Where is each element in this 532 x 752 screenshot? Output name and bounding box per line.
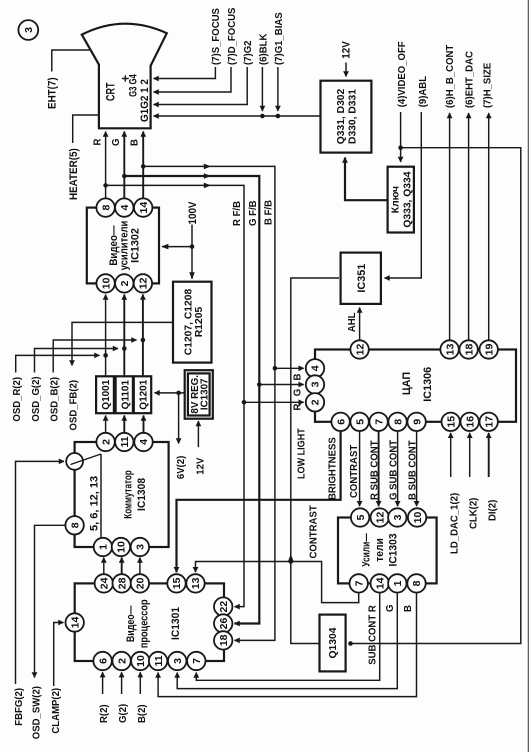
svg-text:2: 2	[119, 280, 131, 286]
svg-text:R(2): R(2)	[99, 704, 110, 723]
wire H_SIZE from pin 19	[488, 113, 490, 340]
block Q331 D302 D330 D331	[321, 81, 372, 153]
svg-text:B F/B: B F/B	[263, 200, 274, 225]
wire R(2) input	[102, 672, 104, 694]
svg-text:(9)ABL: (9)ABL	[418, 76, 429, 107]
svg-text:Q1001: Q1001	[101, 379, 112, 409]
wire 6V branch	[178, 393, 180, 444]
wire R SUB CONT	[378, 431, 380, 506]
pin 2 IC1302	[115, 274, 133, 292]
svg-text:DI(2): DI(2)	[487, 500, 498, 521]
svg-text:28: 28	[116, 577, 128, 589]
svg-text:Видео—: Видео—	[125, 605, 137, 642]
svg-text:B: B	[129, 139, 140, 146]
block switch Klyuch Q333 Q334	[388, 167, 414, 233]
pin 19 IC1306	[480, 340, 498, 358]
svg-text:Q1101: Q1101	[120, 380, 131, 410]
pin 24 IC1301	[95, 574, 113, 592]
svg-text:3: 3	[310, 381, 322, 387]
pin 4 IC1306	[306, 359, 324, 377]
svg-text:5: 5	[354, 419, 366, 425]
pin 17 IC1306	[480, 413, 498, 431]
pin 7 IC1303	[350, 574, 368, 592]
svg-text:19: 19	[483, 344, 495, 356]
svg-text:14: 14	[374, 577, 386, 589]
wire 100V to IC1302 and C1207	[162, 225, 192, 279]
pin 10 IC1308	[112, 538, 130, 556]
svg-text:17: 17	[483, 416, 495, 428]
svg-text:Q1201: Q1201	[139, 379, 150, 409]
pin group 5 6 12 13 IC1308	[66, 453, 101, 537]
pin 3 IC1301	[168, 652, 186, 670]
svg-text:G: G	[385, 604, 396, 612]
svg-text:тели: тели	[374, 538, 386, 562]
svg-text:Q331, D302: Q331, D302	[336, 88, 347, 144]
svg-text:G(2): G(2)	[118, 704, 129, 723]
svg-text:9: 9	[411, 419, 423, 425]
svg-text:B SUB CONT: B SUB CONT	[407, 440, 418, 500]
svg-text:5: 5	[355, 514, 367, 520]
svg-text:SUB CONT R: SUB CONT R	[367, 605, 378, 665]
wire Klyuch to Q331	[345, 158, 388, 201]
svg-text:AHL: AHL	[347, 312, 358, 332]
svg-text:11: 11	[153, 655, 165, 666]
wire H_B_CONT from pin 13	[449, 113, 451, 340]
transistor Q1001	[96, 376, 114, 413]
svg-text:(6)H_B_CONT: (6)H_B_CONT	[445, 45, 456, 108]
wire commutator pin4 to Q1201	[143, 416, 145, 433]
wire BRIGHTNESS	[177, 431, 341, 572]
wire G SUB CONT	[397, 431, 399, 506]
svg-text:LOW LIGHT: LOW LIGHT	[296, 428, 308, 479]
svg-text:B: B	[403, 605, 414, 612]
wire SUB CONT B	[158, 593, 416, 697]
svg-text:22: 22	[218, 601, 230, 613]
pin 22 IC1301	[214, 597, 232, 615]
svg-text:CRT: CRT	[104, 82, 118, 101]
svg-text:7: 7	[373, 419, 385, 425]
pin 10 IC1303	[408, 508, 426, 526]
svg-text:процессор: процессор	[139, 599, 151, 648]
svg-text:1: 1	[98, 544, 110, 550]
block commutator IC1308	[75, 442, 169, 547]
svg-text:OSD_FB(2): OSD_FB(2)	[68, 380, 79, 431]
wire HEATER	[73, 115, 99, 143]
svg-text:6: 6	[97, 658, 109, 664]
wire R F/B	[106, 185, 244, 606]
svg-text:12V: 12V	[341, 41, 352, 59]
wire OSD_FB from C1207	[72, 322, 173, 365]
svg-text:EHT(7): EHT(7)	[47, 77, 58, 109]
pin 18 IC1306	[459, 340, 477, 358]
wire FBFG to pin group	[16, 461, 65, 684]
svg-text:2: 2	[310, 399, 322, 405]
wire CLAMP to pin 14	[54, 623, 64, 687]
wire CLK	[469, 433, 471, 477]
pin 1 IC1308	[94, 538, 112, 556]
pin 11 IC1301	[149, 652, 167, 670]
svg-text:(7)S_FOCUS: (7)S_FOCUS	[211, 8, 222, 65]
svg-text:FBFG(2): FBFG(2)	[14, 688, 25, 726]
pin 15 IC1306	[442, 413, 460, 431]
svg-text:8: 8	[100, 205, 112, 211]
block video processor IC1301	[75, 583, 224, 661]
svg-text:Q1304: Q1304	[328, 627, 339, 658]
wire G2 to CRT	[154, 67, 248, 105]
svg-text:100V: 100V	[188, 201, 199, 224]
pin 8 IC1302	[96, 198, 114, 216]
svg-text:(7)H_SIZE: (7)H_SIZE	[482, 62, 493, 108]
pin 5 IC1303	[351, 508, 369, 526]
wire OSD_R	[16, 355, 100, 372]
svg-text:8: 8	[69, 522, 81, 528]
block 8V REG IC1307	[185, 370, 213, 419]
svg-text:12V: 12V	[195, 457, 206, 474]
pin 3 IC1303	[388, 508, 406, 526]
pin 7 IC1306	[369, 413, 387, 431]
wire LD_DAC_1	[450, 433, 452, 477]
svg-text:Ключ: Ключ	[391, 186, 402, 213]
wire OSD_G	[35, 349, 119, 373]
svg-text:B(2): B(2)	[137, 704, 148, 723]
svg-text:10: 10	[100, 277, 112, 289]
transistor Q1304	[320, 615, 346, 672]
pin 6 IC1306	[331, 413, 349, 431]
svg-text:R: R	[92, 139, 103, 146]
block IC351	[341, 253, 381, 304]
pin 2 IC1306	[306, 393, 324, 411]
svg-text:G SUB CONT: G SUB CONT	[388, 440, 399, 500]
block amplifiers IC1303	[338, 518, 437, 584]
svg-text:ЦАП: ЦАП	[401, 372, 413, 396]
pin 8 IC1308	[65, 516, 83, 534]
wire 12V into Q331	[345, 63, 347, 77]
wire LOW LIGHT to IC351	[291, 278, 339, 562]
pin 6 IC1301	[93, 652, 111, 670]
svg-text:G F/B: G F/B	[248, 200, 259, 226]
svg-text:BRIGHTNESS: BRIGHTNESS	[327, 437, 338, 500]
wire BLK	[261, 67, 263, 111]
svg-text:10: 10	[116, 541, 128, 553]
svg-text:Q333, Q334: Q333, Q334	[403, 171, 414, 227]
wire 8V to Q1201	[155, 392, 185, 394]
svg-text:OSD_SW(2): OSD_SW(2)	[31, 686, 42, 739]
wire R F/B to DAC pin 2	[244, 401, 304, 403]
wire SUB CONT G	[177, 593, 397, 689]
svg-text:IC351: IC351	[356, 264, 368, 293]
wire G video to CRT	[123, 132, 125, 199]
svg-text:5, 6, 12, 13: 5, 6, 12, 13	[89, 476, 101, 531]
wire D_FOCUS to CRT	[154, 67, 232, 92]
svg-text:3: 3	[392, 514, 404, 520]
pin 1 IC1303	[388, 574, 406, 592]
svg-text:14: 14	[69, 617, 81, 629]
svg-text:IC1302: IC1302	[130, 228, 142, 263]
wire G1 row to CRT and Q331	[154, 115, 321, 117]
wire S_FOCUS to CRT	[154, 67, 216, 79]
wire CONTRAST net	[196, 562, 359, 603]
svg-text:10: 10	[412, 512, 424, 524]
svg-text:18: 18	[463, 344, 475, 356]
svg-text:3: 3	[172, 658, 184, 664]
pin 2 IC1301	[112, 652, 130, 670]
wire B SUB CONT	[416, 431, 418, 506]
pin 13 IC1301	[186, 574, 204, 592]
wire G1_BIAS	[277, 67, 279, 111]
svg-text:OSD_R(2): OSD_R(2)	[12, 377, 23, 422]
svg-text:7: 7	[191, 658, 203, 664]
svg-text:D330, D331: D330, D331	[348, 89, 359, 144]
svg-text:8: 8	[392, 419, 404, 425]
CRT internal coating ground symbol	[122, 75, 129, 81]
pin 15 IC1301	[167, 574, 185, 592]
svg-text:3: 3	[23, 27, 35, 33]
svg-text:IC1308: IC1308	[136, 478, 148, 511]
svg-text:10: 10	[135, 655, 147, 667]
svg-text:12: 12	[138, 277, 150, 289]
CRT	[82, 24, 167, 129]
svg-text:OSD_B(2): OSD_B(2)	[49, 377, 60, 422]
svg-text:13: 13	[444, 344, 456, 356]
wire SUB CONT R	[196, 593, 379, 681]
svg-text:24: 24	[99, 577, 111, 589]
svg-text:18: 18	[218, 634, 230, 646]
wire 12V into IC1307	[197, 421, 199, 447]
svg-text:(7)D_FOCUS: (7)D_FOCUS	[227, 7, 238, 65]
sheet reference circle 3	[18, 20, 38, 40]
pin 9 IC1306	[407, 413, 425, 431]
svg-text:(7)G1_BIAS: (7)G1_BIAS	[274, 12, 285, 65]
svg-text:4: 4	[138, 439, 150, 445]
svg-text:4: 4	[119, 205, 131, 211]
wire G(2) input	[121, 672, 123, 694]
svg-text:(7)G2: (7)G2	[243, 40, 254, 65]
svg-text:11: 11	[119, 436, 131, 447]
pin 12 IC1303	[371, 508, 389, 526]
svg-text:6: 6	[335, 419, 347, 425]
svg-text:12: 12	[374, 512, 386, 524]
wire G F/B	[124, 176, 259, 624]
svg-text:IC1303: IC1303	[387, 533, 399, 566]
svg-text:1: 1	[392, 580, 404, 586]
wire IC1301 pin24 to commutator pin1	[103, 558, 105, 575]
wire ABL to IC351	[385, 112, 422, 278]
svg-text:Усили—: Усили—	[361, 533, 373, 567]
wire B video to CRT	[142, 132, 144, 199]
pin 5 IC1306	[350, 413, 368, 431]
wire commutator pin2 to Q1001	[105, 416, 107, 433]
wire VIDEO_OFF branch to Q1304 line	[351, 148, 521, 644]
svg-text:14: 14	[138, 202, 150, 214]
pin 18 IC1301	[214, 631, 232, 649]
svg-text:CONTRAST: CONTRAST	[349, 445, 360, 498]
svg-text:16: 16	[464, 416, 476, 428]
transistor Q1101	[116, 376, 133, 413]
block C1207 C1208 R1205	[173, 282, 212, 363]
pin 14 IC1303	[371, 574, 389, 592]
svg-text:Коммутатор: Коммутатор	[122, 470, 134, 519]
pin 26 IC1301	[214, 614, 232, 632]
wire contrast net down branch	[291, 562, 320, 644]
svg-text:LD_DAC_1(2): LD_DAC_1(2)	[449, 493, 460, 554]
wire R video to CRT	[105, 132, 107, 199]
svg-text:CLAMP(2): CLAMP(2)	[51, 688, 62, 734]
svg-text:15: 15	[445, 416, 457, 428]
pin 4 IC1302	[115, 198, 133, 216]
block DAC IC1306	[315, 350, 516, 422]
pin 20 IC1301	[131, 574, 149, 592]
transistor Q1201	[134, 376, 151, 413]
pin 14 IC1302	[134, 198, 152, 216]
wire OSD_SW from pin 8	[35, 525, 67, 677]
wire Q1001 to IC1302 pin 10	[105, 295, 107, 377]
svg-text:26: 26	[218, 618, 230, 630]
pin 8 IC1303	[407, 574, 425, 592]
wire B F/B to DAC pin 4	[275, 367, 304, 369]
wire B(2) input	[139, 672, 141, 694]
pin 8 IC1306	[388, 413, 406, 431]
svg-text:IC1307: IC1307	[200, 378, 211, 410]
svg-text:13: 13	[190, 577, 202, 589]
svg-text:G: G	[111, 138, 122, 146]
pin 16 IC1306	[461, 413, 479, 431]
svg-text:(6)BLK: (6)BLK	[258, 33, 269, 65]
svg-text:G3 G4: G3 G4	[127, 74, 140, 97]
svg-text:R: R	[292, 404, 303, 411]
pin 14 IC1301	[66, 613, 84, 631]
svg-text:G: G	[292, 389, 303, 397]
svg-text:(4)VIDEO_OFF: (4)VIDEO_OFF	[397, 41, 408, 107]
svg-text:(6)EHT_DAC: (6)EHT_DAC	[464, 51, 475, 108]
svg-text:2: 2	[100, 439, 112, 445]
svg-text:IC1306: IC1306	[422, 367, 434, 402]
svg-text:15: 15	[171, 577, 183, 589]
svg-text:R1205: R1205	[194, 307, 205, 338]
svg-text:6V(2): 6V(2)	[176, 456, 187, 479]
pin 13 IC1306	[440, 340, 458, 358]
pin 12 IC1302	[134, 274, 152, 292]
svg-text:20: 20	[135, 577, 147, 589]
wire EHT_DAC from pin 18	[468, 113, 470, 340]
block video amplifiers IC1302	[87, 208, 159, 284]
wire EHT	[52, 50, 91, 72]
svg-text:2: 2	[116, 658, 128, 664]
pin 7 IC1301	[187, 652, 205, 670]
svg-text:CLK(2): CLK(2)	[468, 498, 479, 529]
wire Q1201 to IC1302 pin 12	[142, 295, 144, 377]
svg-text:R SUB CONT: R SUB CONT	[369, 440, 380, 500]
pin 10 IC1302	[96, 274, 114, 292]
svg-text:HEATER(5): HEATER(5)	[69, 148, 80, 200]
svg-text:7: 7	[353, 580, 365, 586]
svg-text:4: 4	[310, 365, 322, 371]
svg-text:R F/B: R F/B	[232, 201, 243, 226]
svg-text:IC1301: IC1301	[170, 607, 182, 640]
wire OSD_B	[53, 340, 136, 373]
pin 2 IC1308	[96, 433, 114, 451]
wire AHL from DAC pin 12 to IC351	[359, 308, 361, 340]
svg-text:C1207, C1208: C1207, C1208	[184, 289, 195, 356]
wire VIDEO_OFF into Klyuch	[400, 112, 402, 162]
wire DI	[488, 433, 490, 477]
svg-text:CONTRAST: CONTRAST	[308, 505, 319, 558]
svg-text:B: B	[292, 374, 303, 381]
wire G F/B to DAC pin 3	[259, 384, 303, 386]
svg-text:12: 12	[354, 344, 366, 356]
pin 3 IC1308	[131, 538, 149, 556]
wire Q1101 to IC1302 pin 2	[123, 295, 125, 377]
svg-text:OSD_G(2): OSD_G(2)	[31, 376, 42, 421]
pin 12 IC1306	[350, 340, 368, 358]
pin 3 IC1306	[306, 375, 324, 393]
pin 11 IC1308	[115, 433, 133, 451]
svg-text:8: 8	[411, 580, 423, 586]
svg-text:3: 3	[135, 544, 147, 550]
wire IC1301 pin28 to commutator pin10	[121, 558, 123, 575]
pin 28 IC1301	[113, 574, 131, 592]
wire commutator pin11 to Q1101	[123, 416, 125, 433]
wire CONTRAST DAC to IC1303 pin5	[359, 431, 361, 506]
pin 10 IC1301	[131, 652, 149, 670]
svg-text:G1G2 1 2: G1G2 1 2	[139, 79, 151, 122]
pin 4 IC1308	[134, 433, 152, 451]
wire B F/B	[143, 166, 275, 640]
wire IC1301 pin20 to commutator pin3	[139, 558, 141, 575]
